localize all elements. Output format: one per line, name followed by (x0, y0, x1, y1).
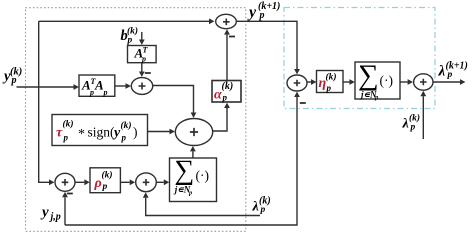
svg-text:(k): (k) (63, 119, 74, 130)
wire: lambda_p(k) input up into S6 (420, 91, 426, 139)
wire: top sum output y_p(k+1) right then down into right sum node S5 (236, 21, 300, 74)
minus sign at S5 bottom input (300, 102, 306, 104)
wire: S5 to eta block (307, 79, 316, 85)
wire: rho to sum S4 (120, 179, 135, 185)
label lambda_p(k) right (402, 113, 421, 133)
svg-text:(k+1): (k+1) (446, 61, 468, 72)
svg-text:p: p (260, 205, 266, 215)
block tau_p(k) * sign(y_p(k)) (52, 115, 148, 146)
wire: Sigma2 to output sum node S6 (400, 79, 413, 85)
svg-text:p: p (127, 36, 133, 46)
summing node middle (large) (175, 119, 212, 146)
wire: S4 to Sigma1 block (156, 179, 169, 185)
svg-text:p: p (447, 70, 453, 80)
svg-text:p: p (222, 93, 228, 103)
dotted boundary box (left subsystem) (26, 8, 246, 232)
wire: b_p(k) arrow into A_p^T block (139, 32, 145, 45)
wire: top rail into top sum node (39, 18, 215, 24)
block alpha_p(k) (212, 81, 241, 103)
svg-text:): ) (133, 125, 138, 140)
svg-text:(·): (·) (380, 73, 394, 88)
svg-text:(k): (k) (326, 72, 337, 83)
block A_p^T A_p (79, 75, 115, 97)
svg-text:(·): (·) (196, 168, 210, 183)
wire: A_p^T A_p to sum S1 (115, 83, 131, 89)
wire: S1 output right then down into middle sum node (153, 86, 197, 118)
svg-text:λ: λ (402, 117, 409, 132)
svg-text:(k): (k) (121, 120, 132, 131)
svg-text:(k): (k) (102, 170, 113, 181)
svg-text:ρ: ρ (94, 176, 102, 191)
minus sign at S3 bottom input (67, 193, 73, 195)
minus sign at top sum node bottom input (229, 36, 235, 38)
svg-text:(k): (k) (409, 113, 420, 124)
svg-text:(k): (k) (222, 81, 234, 92)
summing node S6 (414, 74, 433, 90)
wire: alpha block up into top sum node (negative) (224, 29, 230, 80)
svg-text:λ: λ (438, 64, 446, 80)
svg-text:(k): (k) (127, 26, 138, 37)
block rho_p(k) (90, 168, 120, 193)
svg-text:y: y (247, 4, 257, 21)
summing node S5 (287, 75, 307, 91)
summing node S4 (136, 173, 157, 192)
label b_p(k) (121, 26, 139, 46)
svg-text:p: p (89, 88, 94, 97)
wire: output lambda_p(k+1) (433, 79, 465, 85)
summing node top (216, 14, 237, 28)
svg-text:p: p (63, 133, 69, 143)
label y_p(k+1) (247, 1, 280, 21)
label y_j,p (40, 205, 61, 223)
svg-text:(k): (k) (10, 67, 22, 78)
svg-text:sign(: sign( (88, 125, 116, 140)
svg-text:(k): (k) (259, 196, 271, 207)
wire: S3 to rho block (75, 179, 90, 185)
block eta_p(k) (317, 71, 344, 94)
wire: eta to Sigma2 block (343, 79, 355, 85)
svg-text:p: p (102, 182, 108, 192)
svg-text:p: p (326, 83, 332, 93)
summing node S1 (131, 78, 152, 95)
wire: A_p^T down into sum S1 (negative) (139, 63, 145, 77)
label lambda_p(k) bottom (252, 196, 271, 216)
wire: middle sum output right and up into alpha block (213, 103, 230, 131)
svg-text:j,p: j,p (49, 212, 61, 223)
svg-text:(k+1): (k+1) (258, 1, 280, 12)
minus sign at S1 top input (145, 72, 151, 74)
svg-text:p: p (410, 123, 416, 133)
label lambda_p(k+1) (438, 61, 468, 81)
wire: lambda_p(k) feedback into S4 from below (143, 192, 260, 215)
svg-text:*: * (78, 127, 85, 142)
wire: tau block into middle sum node (148, 129, 175, 135)
dashed boundary box (right subsystem) (284, 8, 435, 109)
svg-text:y: y (40, 205, 49, 221)
wire: y_jp branch up into S3 (negative) (62, 192, 68, 225)
svg-text:∑: ∑ (174, 155, 194, 186)
svg-text:∑: ∑ (358, 60, 379, 92)
wire: Sigma1 up into middle sum node (190, 146, 196, 158)
wire: left branch vertical from input junction up to top rail and down to sum S3 (39, 21, 55, 185)
svg-text:p: p (103, 88, 108, 97)
summing node S3 (55, 173, 75, 191)
svg-text:λ: λ (252, 200, 259, 215)
block A_p^T (128, 46, 157, 64)
block Sigma1 sum over j in N_p (170, 155, 217, 202)
wire: input y_p(k) into A_p^T A_p block (17, 84, 79, 90)
svg-text:p: p (141, 55, 146, 64)
svg-text:A: A (94, 78, 104, 93)
wire: y_jp bottom rail into S5 (negative) (65, 92, 300, 225)
svg-text:p: p (121, 133, 127, 143)
label y_p(k) input (2, 67, 22, 87)
block Sigma2 sum over j in N_p (355, 60, 400, 101)
